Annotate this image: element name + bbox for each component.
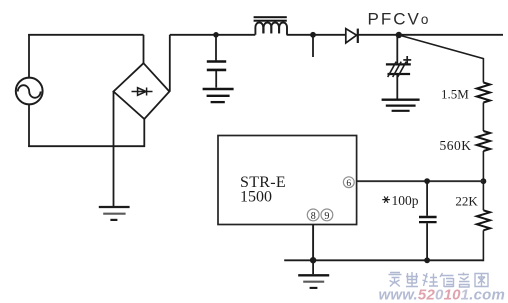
svg-text:PFCVo: PFCVo bbox=[368, 10, 431, 29]
junction J2 bbox=[310, 32, 316, 38]
bridge inner diode triangle bbox=[138, 88, 146, 96]
svg-text:6: 6 bbox=[346, 179, 351, 189]
watermark char 6 bbox=[475, 274, 488, 287]
capacitor C3 plates bbox=[419, 217, 437, 222]
wire left side bottom bbox=[28, 104, 30, 147]
wire left side top bbox=[28, 34, 30, 78]
svg-text:1.5M: 1.5M bbox=[441, 87, 469, 102]
svg-text:9: 9 bbox=[324, 211, 329, 222]
resistor R3 22K zigzag bbox=[477, 210, 490, 230]
bridge inner diode lead bbox=[132, 91, 153, 93]
watermark char 4 bbox=[440, 273, 454, 287]
wire box pin89 down to bottom rail bbox=[312, 225, 314, 261]
wire R1 to R2 bbox=[482, 103, 484, 132]
IC U1 STR-E1500 box bbox=[218, 136, 357, 225]
capacitor C2 plates bbox=[386, 64, 411, 74]
AC source sine wave bbox=[18, 85, 41, 98]
wire stub below junction J2 bbox=[312, 35, 314, 57]
watermark char 1 bbox=[389, 273, 402, 287]
capacitor C1 bottom stem bbox=[215, 71, 217, 88]
resistor R2 560K zigzag bbox=[477, 131, 490, 151]
junction J7 bbox=[424, 257, 430, 263]
ground G4 bbox=[298, 275, 329, 288]
svg-text:22K: 22K bbox=[455, 193, 478, 208]
wire bridge left vertex to ground bbox=[113, 91, 115, 206]
wire bottom loop bbox=[28, 145, 145, 147]
capacitor C2 bottom stem bbox=[396, 75, 398, 99]
watermark char 3 bbox=[423, 273, 439, 287]
wire top rail left segment bbox=[28, 34, 143, 36]
watermark chinese characters bbox=[389, 272, 489, 287]
capacitor C1 plates bbox=[207, 62, 226, 70]
svg-text:1500: 1500 bbox=[240, 189, 272, 206]
wire top rail middle segment bbox=[170, 34, 256, 36]
wire R3 to bottom rail bbox=[482, 230, 484, 261]
watermark char 2 bbox=[406, 272, 418, 287]
junction J1 bbox=[213, 32, 219, 38]
label asterisk of *100p bbox=[382, 196, 390, 202]
ground G3 bbox=[382, 100, 420, 111]
AC source V1 circle bbox=[16, 78, 43, 105]
capacitor C2 top stem bbox=[396, 35, 398, 63]
node PFCVo junction J3 bbox=[396, 32, 402, 38]
wire pin6 to J4 bbox=[357, 180, 484, 182]
wire bottom rail bbox=[284, 259, 483, 261]
capacitor C3 top stem bbox=[426, 181, 428, 216]
junction J6 bbox=[310, 257, 316, 263]
capacitor C2 slashes bbox=[388, 62, 407, 77]
ground G1 bbox=[99, 207, 130, 220]
diode D1 cathode bar bbox=[357, 29, 359, 43]
wire bridge right vertex up bbox=[169, 35, 171, 92]
pin 6 circle bbox=[343, 177, 354, 189]
wire J4 to R3 bbox=[482, 181, 484, 210]
capacitor C1 top stem bbox=[215, 35, 217, 61]
watermark char 5 bbox=[458, 273, 470, 288]
svg-text:www.520101.com: www.520101.com bbox=[379, 287, 506, 303]
capacitor C3 bottom stem bbox=[426, 223, 428, 260]
pin 8 circle bbox=[307, 209, 319, 222]
ground G2 bbox=[203, 89, 234, 102]
diode D1 triangle bbox=[346, 29, 357, 43]
ground G4 stem bbox=[312, 260, 314, 274]
wire diagonal node to resistor chain bbox=[399, 35, 484, 83]
svg-text:100p: 100p bbox=[392, 193, 419, 208]
capacitor C2 plus sign bbox=[403, 56, 411, 64]
bridge top stem bbox=[143, 35, 145, 64]
bridge rectifier BR1 diamond bbox=[114, 63, 170, 119]
svg-text:8: 8 bbox=[311, 211, 316, 222]
resistor R1 1.5M zigzag bbox=[477, 83, 490, 103]
junction J5 bbox=[424, 178, 430, 184]
inductor L1 winding bbox=[255, 22, 287, 34]
pin 9 circle bbox=[321, 209, 333, 222]
bridge inner diode bar bbox=[146, 88, 148, 96]
wire rail diode to right edge bbox=[357, 34, 503, 36]
svg-text:560K: 560K bbox=[440, 138, 472, 153]
wire rail inductor to diode bbox=[287, 34, 346, 36]
bridge bottom stem bbox=[143, 119, 145, 148]
junction J4 bbox=[481, 178, 487, 184]
wire R2 to junction J4 bbox=[482, 151, 484, 181]
inductor L1 core bars bbox=[254, 16, 287, 22]
